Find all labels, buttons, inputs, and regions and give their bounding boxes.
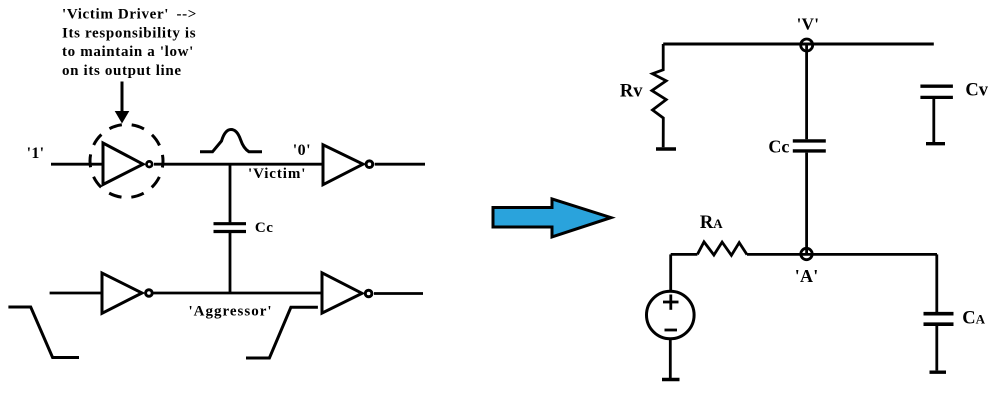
capacitor Cc (left) (214, 224, 247, 232)
svg-text:'V': 'V' (797, 15, 820, 34)
inverter U2 victim receiver (323, 145, 373, 185)
dashed circle highlight (90, 125, 163, 198)
svg-text:to maintain a 'low': to maintain a 'low' (62, 44, 194, 60)
svg-text:Cc: Cc (255, 220, 274, 236)
svg-text:'Aggressor': 'Aggressor' (189, 303, 273, 319)
resistor Rv (652, 44, 666, 147)
annotation text 'Victim Driver' (62, 7, 197, 79)
svg-text:on its output line: on its output line (62, 63, 182, 79)
svg-text:RA: RA (700, 213, 723, 233)
wire Cc right lower (805, 153, 808, 254)
svg-text:'A': 'A' (795, 266, 819, 286)
capacitor CA (924, 254, 954, 370)
wire node A row left (671, 253, 698, 256)
ground CA (930, 371, 947, 374)
node V (801, 39, 813, 51)
svg-text:'0': '0' (293, 142, 311, 159)
rising edge waveform (aggressor input) (246, 307, 318, 358)
wire victim output (375, 163, 425, 166)
wire Cc to aggressor line (229, 233, 232, 295)
capacitor Cc (right) (793, 141, 826, 151)
svg-text:Its responsibility is: Its responsibility is (62, 25, 196, 41)
capacitor Cv (920, 86, 953, 142)
wire source to ground (669, 339, 672, 378)
wire victim input (51, 163, 103, 166)
wire victim line (154, 163, 323, 166)
wire Cc right upper (805, 44, 808, 139)
wire aggressor line (154, 292, 323, 295)
wire node A row right (747, 253, 937, 256)
svg-text:Cv: Cv (965, 80, 988, 100)
ground source (662, 378, 680, 382)
ground Cv (926, 142, 945, 145)
voltage source VS (647, 291, 695, 339)
inverter U4 aggressor receiver (322, 273, 372, 313)
wire aggressor input (50, 292, 102, 295)
falling edge waveform (left) (8, 307, 79, 358)
svg-text:'Victim': 'Victim' (248, 166, 306, 182)
wire aggressor output (374, 292, 423, 295)
annotation arrow (115, 82, 130, 124)
inverter U1 victim driver (103, 143, 152, 185)
wire top (node V rail) (663, 43, 934, 46)
svg-text:'Victim Driver' -->: 'Victim Driver' --> (62, 7, 197, 23)
noise bump waveform (200, 130, 262, 152)
resistor RA (697, 242, 747, 255)
svg-text:CA: CA (962, 309, 985, 329)
node A (801, 248, 812, 259)
wire source top (669, 254, 672, 291)
ground Rv (656, 147, 676, 151)
blue arrow (493, 199, 611, 237)
svg-text:'1': '1' (27, 145, 45, 162)
inverter U3 aggressor driver (102, 273, 152, 313)
wire victim stub to Cc (229, 164, 232, 222)
svg-text:Cc: Cc (768, 137, 789, 157)
svg-text:Rv: Rv (620, 82, 643, 102)
